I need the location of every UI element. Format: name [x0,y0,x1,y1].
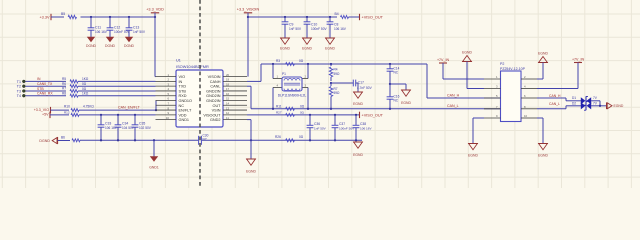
svg-text:16: 16 [226,92,230,96]
svg-text:RXD: RXD [179,94,187,98]
pin 3 TXD [156,85,177,87]
wire pin9 to EGND [473,117,484,119]
capacitor C8 [329,17,331,22]
svg-text:C36: C36 [314,122,320,126]
svg-text:C17: C17 [358,80,364,84]
pin 9 [484,117,501,119]
pin 4 [521,88,537,90]
svg-text:EGND: EGND [302,47,312,51]
svg-text:EGND: EGND [462,50,472,54]
svg-text:10: 10 [524,114,528,118]
wire GND2 to EGND [247,119,251,121]
svg-text:GND2IN: GND2IN [206,89,221,93]
svg-text:0Ω: 0Ω [82,82,87,86]
svg-text:1nF 50V: 1nF 50V [133,30,146,34]
wire [51,16,64,18]
svg-text:EGND: EGND [614,104,624,108]
svg-text:DGND: DGND [124,44,135,48]
svg-text:18: 18 [226,82,230,86]
svg-text:DGND: DGND [105,44,116,48]
wire net CAN_H (bus) [537,97,566,99]
svg-text:CANH: CANH [210,80,221,84]
svg-text:NC: NC [394,71,399,75]
resistor R4 termination [330,64,332,66]
svg-text:EN/FLT: EN/FLT [179,109,192,113]
svg-text:C9: C9 [289,23,293,27]
svg-text:D1: D1 [572,96,576,100]
wire CANH up [247,80,261,82]
svg-text:T1: T1 [17,80,21,84]
capacitor C14 [389,64,391,69]
svg-text:C13: C13 [133,26,139,30]
svg-text:1nF 50V: 1nF 50V [289,27,302,31]
pin 10 GND1 [156,119,177,121]
svg-text:102 50V: 102 50V [139,126,152,130]
wire net CAN0_RX [26,95,67,97]
ground EGND [390,83,406,85]
pin 6 GND1O [156,100,177,102]
wire CANL line [251,108,500,110]
wire net CAN_EN/FLT [79,109,156,111]
capacitor C37 [334,115,336,125]
wire [349,16,360,18]
svg-text:100nF 50V: 100nF 50V [311,27,327,31]
svg-text:C35: C35 [139,122,145,126]
power port +VISO_OUT (top) [359,14,361,20]
svg-text:T3: T3 [17,89,21,93]
svg-text:DGND: DGND [86,44,97,48]
svg-text:GND2IN: GND2IN [206,94,221,98]
svg-text:106 16V: 106 16V [95,30,108,34]
svg-text:P2: P2 [500,62,504,66]
svg-text:STB: STB [37,87,44,91]
svg-text:14: 14 [226,101,230,105]
svg-text:GND1: GND1 [149,165,159,169]
svg-text:IN: IN [37,77,41,81]
wire ground rail GND1 side [80,139,198,141]
svg-text:+7V_IN: +7V_IN [572,58,584,62]
svg-text:1nF 50V: 1nF 50V [314,127,327,131]
svg-text:CAN_H: CAN_H [549,94,561,98]
svg-text:GND1O: GND1O [179,99,193,103]
svg-text:C34: C34 [122,122,128,126]
svg-text:PZ254V-12-10P: PZ254V-12-10P [500,67,526,71]
capacitor C38 [355,115,357,125]
wire net STB [26,90,67,92]
ground EGND (bottom left) [468,143,478,145]
svg-text:R7: R7 [62,87,66,91]
ground DGND [128,34,130,37]
capacitor C17 [331,82,353,84]
svg-text:STB: STB [179,89,187,93]
svg-text:1KΩ: 1KΩ [82,92,89,96]
wire [591,100,600,102]
svg-text:4.7nF 50V: 4.7nF 50V [357,86,373,90]
svg-text:+3.3_VISOIN: +3.3_VISOIN [237,8,260,12]
svg-text:D2: D2 [572,102,576,106]
pin 17 GND2IN [223,90,247,92]
svg-text:VISOIN: VISOIN [208,75,221,79]
pin 6 [521,97,537,99]
svg-text:EGND: EGND [280,47,290,51]
svg-text:IN: IN [179,80,183,84]
pin 10 [521,117,537,119]
pin 13 VSIN [223,109,247,111]
capacitor C35 [134,115,136,125]
svg-text:+5V: +5V [42,113,49,117]
ground EGND [306,30,308,38]
capacitor C36 [309,115,311,125]
svg-text:59Ω: 59Ω [334,91,341,95]
capacitor C12 [109,17,111,28]
ground DGND [109,34,111,37]
pin 8 [521,108,537,110]
wire pin10 to EGND [537,117,543,119]
pin 5 [484,97,501,99]
svg-text:C37: C37 [339,122,345,126]
svg-text:+3.3_VDD: +3.3_VDD [146,8,164,12]
svg-text:1KΩ: 1KΩ [82,77,89,81]
wire CANL down [247,85,251,87]
wire [50,114,69,116]
power port +VISO_OUT [359,112,361,118]
pin 14 OUT [223,104,247,106]
capacitor C10 [306,17,308,22]
ground EGND (bottom right) [538,143,548,145]
svg-text:4.75KΩ: 4.75KΩ [83,104,94,108]
svg-text:106 16V: 106 16V [360,127,372,131]
pin 9 VDD [156,114,177,116]
pin 11 GND2 [223,119,247,121]
pin 3 [484,88,501,90]
svg-text:T2: T2 [17,85,21,89]
svg-text:R5: R5 [62,77,66,81]
pin 7 [484,108,501,110]
svg-text:EGND: EGND [401,101,411,105]
svg-text:EGND: EGND [246,170,256,174]
pin 18 CANL [223,85,247,87]
svg-text:CAN0_TX: CAN0_TX [37,82,53,86]
svg-text:C10: C10 [311,23,317,27]
wire net CAN_L (bus) [537,108,566,110]
pin 2 IN [156,80,177,82]
svg-text:NC: NC [179,104,185,108]
wire [78,80,156,82]
pin 20 VISOIN [223,76,247,78]
svg-text:R26: R26 [275,135,281,139]
svg-text:B5: B5 [61,12,65,16]
svg-text:C11: C11 [95,26,101,30]
svg-text:ISOW1044BDFMR: ISOW1044BDFMR [176,64,209,69]
wire VISOIN rail [248,16,337,18]
wire CANH line [261,63,427,65]
svg-text:EGND: EGND [325,47,335,51]
capacitor C33 [100,115,102,125]
svg-text:10: 10 [166,116,170,120]
svg-text:19: 19 [226,78,230,82]
svg-text:59Ω: 59Ω [334,72,341,76]
svg-text:C12: C12 [114,26,120,30]
svg-text:VSIN: VSIN [212,109,221,113]
capacitor C11 [90,17,92,28]
svg-text:104 50V: 104 50V [122,126,135,130]
ground EGND [329,30,331,38]
svg-text:R12: R12 [64,111,70,115]
wire [247,13,249,77]
svg-text:GND2IN: GND2IN [206,99,221,103]
svg-text:B6: B6 [61,136,65,140]
svg-text:0Ω: 0Ω [299,135,304,139]
svg-text:0Ω: 0Ω [300,104,305,108]
ground EGND under rail [353,141,363,143]
svg-text:CAN_EN/FLT: CAN_EN/FLT [118,105,141,109]
ground EGND [357,83,359,92]
svg-text:+3.3V: +3.3V [39,15,49,19]
capacitor C34 [117,115,119,125]
wire [81,16,156,18]
wire [78,90,156,92]
diode D1 TVS [581,97,586,104]
svg-text:20: 20 [226,73,230,77]
ground EGND [246,158,256,160]
svg-text:+3.3_VIO: +3.3_VIO [34,108,49,112]
svg-text:11: 11 [226,116,229,120]
wire [591,105,606,107]
wire [51,109,70,111]
wire [78,95,156,97]
pin 1 VIO [156,76,177,78]
svg-text:EGND: EGND [353,153,363,157]
svg-text:EGND: EGND [538,154,548,158]
pin 15 GND2IN [223,100,247,102]
svg-text:DLP11SN900HL2L: DLP11SN900HL2L [278,94,307,98]
svg-text:CAN_L: CAN_L [549,102,560,106]
svg-text:0Ω: 0Ω [82,87,87,91]
svg-text:U1: U1 [176,59,181,63]
pin 1 [484,78,501,80]
svg-text:+VISO_OUT: +VISO_OUT [362,16,384,20]
capacitor C13 [128,17,130,28]
svg-text:GND2: GND2 [210,118,221,122]
svg-text:106 16V: 106 16V [105,126,118,130]
svg-text:CANL: CANL [210,85,220,89]
svg-text:R10: R10 [64,104,70,108]
svg-text:EGND: EGND [468,154,478,158]
svg-text:NC: NC [394,99,399,103]
svg-text:C8: C8 [334,23,338,27]
svg-text:DGND: DGND [39,139,50,143]
pin 2 [521,78,537,80]
pin 7 NC [156,104,177,106]
svg-text:C38: C38 [360,122,366,126]
svg-text:12: 12 [226,111,230,115]
wire [577,63,579,89]
svg-text:17: 17 [226,87,230,91]
svg-text:0Ω: 0Ω [299,59,304,63]
stitching capacitor C30 [198,136,200,145]
wire VISOOUT rail [247,114,359,116]
ground EGND [284,30,286,38]
svg-text:C33: C33 [105,122,111,126]
resistor R7 termination [330,83,332,86]
svg-text:106 16V: 106 16V [334,27,347,31]
svg-text:EGND: EGND [353,102,363,106]
wire [58,140,70,142]
wire [442,63,444,79]
pin 19 CANH [223,80,247,82]
svg-text:EGND: EGND [538,51,548,55]
svg-text:CAN0_RX: CAN0_RX [37,92,53,96]
svg-text:+VISO_OUT: +VISO_OUT [362,113,384,117]
svg-text:VISOOUT: VISOOUT [203,113,221,117]
pin 12 VISOOUT [223,114,247,116]
svg-text:GND1: GND1 [179,118,190,122]
svg-text:T4: T4 [17,94,21,98]
ground EGND (side) [606,103,608,110]
wire CAN_H [426,64,428,98]
pin 5 RXD [156,95,177,97]
svg-text:15: 15 [226,97,230,101]
svg-text:R3: R3 [276,59,280,63]
svg-text:OUT: OUT [212,104,221,108]
ground GND1 [153,140,155,156]
svg-text:13: 13 [226,106,230,110]
capacitor C16 [389,84,391,97]
wire net IN [26,80,67,82]
wire net CAN0_TX [26,85,67,87]
wire ground rail GND2 side [202,139,362,141]
isolation barrier (dashed) [199,0,201,188]
wire VDD [79,114,156,116]
wire [78,85,156,87]
wire VIO to +3.3_VDD [154,17,156,77]
pin 16 GND2IN [223,95,247,97]
ground DGND [90,34,92,37]
svg-text:VDD: VDD [179,113,187,117]
svg-text:CAN_L: CAN_L [447,104,459,108]
wire [330,77,332,81]
pin 8 EN/FLT [156,109,177,111]
svg-text:P1: P1 [282,72,286,76]
svg-text:R6: R6 [62,82,66,86]
svg-text:B4: B4 [335,12,339,16]
svg-text:VIO: VIO [179,75,186,79]
svg-text:+7V_IN: +7V_IN [437,58,449,62]
svg-text:R27: R27 [276,111,282,115]
svg-text:TXD: TXD [179,85,187,89]
svg-text:CAN_H: CAN_H [447,93,460,97]
svg-text:R11: R11 [276,104,282,108]
diode D2 TVS [581,102,586,109]
capacitor C9 [284,17,286,22]
pin 4 STB [156,90,177,92]
svg-text:R8: R8 [62,91,66,95]
